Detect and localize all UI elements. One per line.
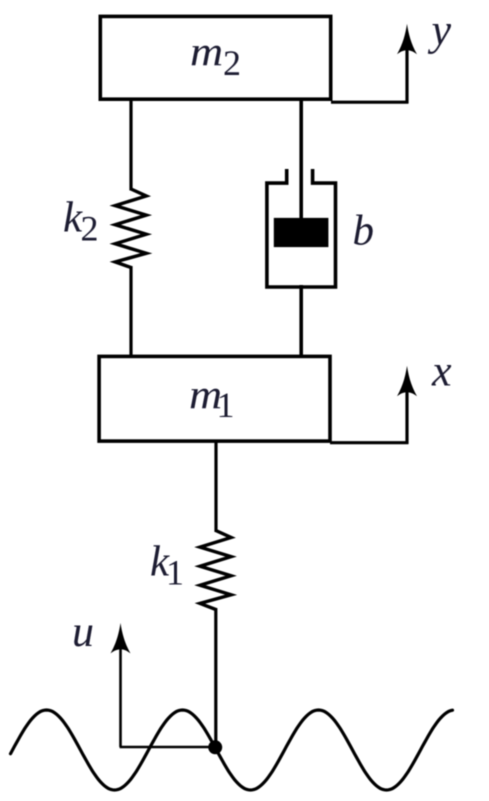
svg-text:u: u [72,607,94,656]
x axis horizontal wire [330,441,408,444]
y axis horizontal wire [331,101,408,104]
damper piston [274,218,329,247]
svg-text:b: b [353,207,375,254]
svg-text:1: 1 [217,385,235,425]
ground wave [11,710,453,790]
label m2 [190,29,241,83]
wire m1 to spring k1 [214,441,217,532]
u axis arrow shaft [119,640,122,747]
svg-text:y: y [428,6,452,55]
label m1 [189,372,235,425]
wire damper to m1 [299,285,303,357]
mass m2 box [100,16,330,99]
label k1 [150,539,184,593]
x axis arrow shaft [405,382,408,444]
x axis arrowhead [397,366,417,397]
svg-text:x: x [431,347,452,396]
mass m1 box [99,356,330,441]
wire spring k2 to m1 [129,266,132,357]
u axis horizontal wire [120,746,215,749]
spring k2 [115,189,146,268]
ground node dot [208,740,222,754]
damper rod from m2 to piston [299,99,303,219]
u axis arrowhead [111,623,131,654]
wire spring k1 to ground node [214,608,217,747]
label k2 [63,195,99,249]
spring k1 [200,531,231,610]
y axis arrowhead [397,24,417,55]
y axis arrow shaft [405,40,408,104]
wire m2 to spring k2 [129,99,132,191]
svg-text:2: 2 [81,209,99,249]
svg-text:1: 1 [166,553,184,593]
damper b cup [267,169,336,287]
svg-text:2: 2 [223,43,241,83]
svg-text:m: m [190,29,223,74]
